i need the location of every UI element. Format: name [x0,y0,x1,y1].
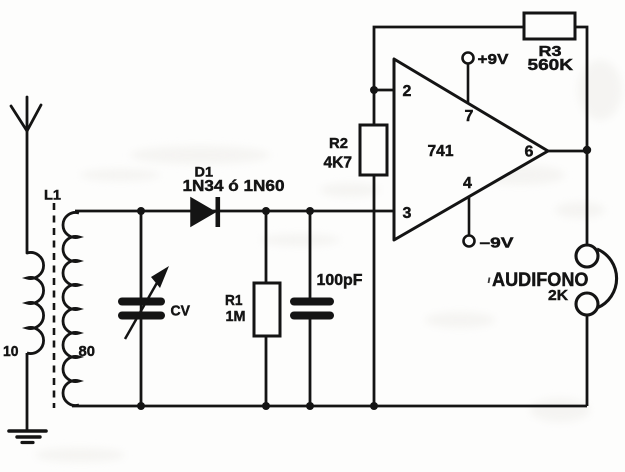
wire feedback top [374,27,587,150]
node output [583,146,591,154]
svg-text:1M: 1M [226,308,246,325]
core dashed line [53,203,56,408]
inductor L1 (80 turns coil) [63,212,79,405]
wire R1 branch [265,211,268,406]
svg-text:741: 741 [428,143,454,160]
earphone bottom cup [576,293,598,315]
svg-text:CV: CV [171,303,191,320]
wire pin7 [467,64,470,103]
svg-text:2: 2 [403,83,412,100]
svg-text:+9V: +9V [478,51,509,68]
svg-text:6: 6 [525,144,534,161]
resistor R1 [254,283,280,336]
wire CV branch [140,211,143,406]
node bottom R1 [262,402,270,410]
capacitor 100pF plates [294,302,330,316]
earphone top cup [576,245,598,267]
op-amp U1 741 [394,59,548,240]
node top R1 [262,207,270,215]
node bottom R2 [370,402,378,410]
wire bottom rail [72,405,587,408]
wire antenna coil to ground [26,353,29,431]
antenna [11,97,41,253]
resistor R3 [524,13,575,39]
svg-text:–9V: –9V [480,235,514,252]
svg-text:1N34 ó 1N60: 1N34 ó 1N60 [183,178,285,195]
diode D1 [191,197,218,227]
svg-text:L1: L1 [44,187,61,203]
wire pin2 stub [374,89,394,92]
resistor R2 [360,125,387,175]
svg-text:4: 4 [463,175,472,192]
svg-text:7: 7 [465,108,474,125]
svg-text:AUDIFONO: AUDIFONO [492,269,589,291]
wire pin4 [468,197,471,235]
terminal +9V [463,53,474,64]
wire output pin6 [548,150,587,153]
svg-text:10: 10 [3,343,19,360]
svg-text:R2: R2 [329,135,348,152]
earphone band [597,249,617,308]
svg-text:R1: R1 [225,292,243,309]
svg-text:560K: 560K [528,57,574,74]
capacitor CV arrow [125,266,169,339]
node pin2 [370,86,378,94]
terminal -9V [464,236,475,247]
ground [9,431,46,443]
svg-text:3: 3 [403,205,412,222]
svg-text:2K: 2K [548,288,569,304]
stray mark [489,278,490,284]
node bottom C100 [306,402,314,410]
wire top rail [75,210,394,213]
wire output down to phones [586,150,589,245]
svg-text:4K7: 4K7 [324,155,353,172]
wire 100pF branch [309,211,312,406]
wire phones to bottom rail [586,315,589,406]
wire R2 branch [373,90,376,406]
svg-text:100pF: 100pF [317,272,363,289]
inductor primary (10 turns coil) [27,253,44,354]
capacitor CV plates [122,302,161,316]
node bottom CV [137,402,145,410]
node top C100 [306,207,314,215]
node top CV [137,207,145,215]
